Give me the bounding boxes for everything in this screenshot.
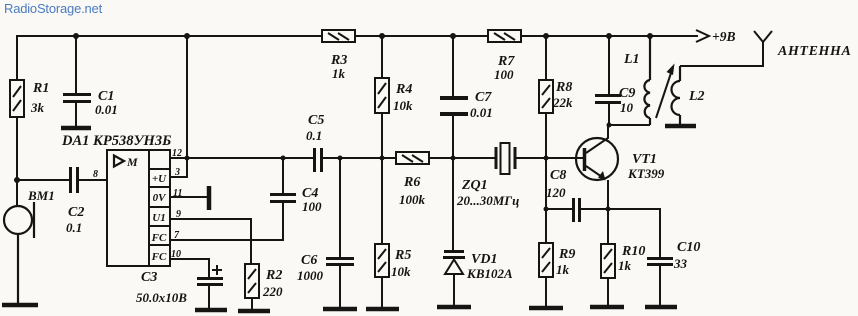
svg-text:RadioStorage.net: RadioStorage.net [4, 1, 103, 16]
node C7 top [450, 33, 456, 39]
svg-text:0.01: 0.01 [95, 102, 118, 117]
label C1 value [95, 89, 118, 117]
capacitor C4 [270, 158, 296, 202]
label C7 value [470, 90, 493, 120]
svg-text:0V: 0V [153, 192, 168, 204]
DA1 pin numbers [171, 148, 182, 260]
label R3 value [330, 53, 347, 81]
svg-text:C7: C7 [475, 90, 492, 105]
capacitor C6 [326, 158, 354, 307]
resistor R6 [396, 152, 495, 164]
ground under C10 [645, 305, 677, 310]
label R4 value [393, 82, 413, 113]
capacitor C1 [63, 36, 91, 126]
label C8 value [546, 168, 566, 200]
svg-text:VD1: VD1 [471, 252, 497, 267]
svg-text:C9: C9 [619, 86, 635, 101]
ground under R5 [366, 307, 399, 312]
svg-text:1000: 1000 [297, 268, 324, 283]
svg-text:R1: R1 [32, 81, 49, 96]
+9V arrow [696, 30, 709, 42]
label C9 value [619, 86, 635, 115]
svg-text:BM1: BM1 [27, 188, 55, 203]
node C1 top junction [73, 33, 79, 39]
svg-text:R9: R9 [558, 247, 575, 262]
svg-text:33: 33 [673, 256, 688, 271]
node emitter/C8 right [606, 207, 611, 212]
svg-text:1k: 1k [332, 66, 346, 81]
wire collector node to L1 [609, 124, 650, 126]
crystal ZQ1 [496, 143, 583, 174]
node collector/L1 [607, 123, 612, 128]
svg-text:C6: C6 [301, 253, 317, 268]
label VD1 type [466, 252, 513, 281]
svg-text:120: 120 [546, 185, 566, 200]
resistor R8 [539, 36, 553, 209]
DA1 cell labels [151, 173, 168, 263]
wire pin9 to R2 [170, 219, 251, 264]
svg-text:ZQ1: ZQ1 [461, 178, 488, 193]
wire pin3 to supply node [170, 158, 187, 177]
ground under L2 [665, 124, 696, 129]
svg-text:50.0x10В: 50.0x10В [136, 290, 187, 305]
svg-text:22k: 22k [552, 95, 573, 110]
svg-text:R8: R8 [555, 80, 572, 95]
wire pin11 stub [170, 196, 207, 198]
svg-text:1k: 1k [556, 262, 570, 277]
label R1 value [30, 81, 49, 115]
label ZQ1 value [456, 178, 519, 208]
ground under BM1 [2, 303, 38, 308]
svg-text:10k: 10k [393, 98, 413, 113]
svg-text:3k: 3k [30, 100, 45, 115]
tuning arrow L1/L2 [656, 64, 675, 119]
svg-text:+9В: +9В [712, 29, 735, 44]
varicap VD1 [443, 158, 465, 305]
svg-text:VT1: VT1 [632, 152, 657, 167]
DA1 amplifier mark [114, 155, 138, 169]
label R6 value [399, 175, 426, 207]
label C5 value [306, 113, 324, 143]
svg-text:100k: 100k [399, 192, 426, 207]
svg-text:L2: L2 [688, 89, 705, 104]
transistor VT1 [546, 125, 618, 209]
svg-text:L1: L1 [623, 52, 640, 67]
node C6 top [338, 156, 343, 161]
svg-text:R4: R4 [395, 82, 412, 97]
node R8 top [543, 33, 549, 39]
node R4 top [379, 33, 385, 39]
node C8 left [544, 207, 549, 212]
node mic/C2 branch [14, 177, 20, 183]
svg-text:R5: R5 [394, 248, 411, 263]
wire pin7 to C4 [170, 203, 283, 240]
node rail x187 [184, 33, 190, 39]
microphone BM1 [4, 202, 34, 303]
ground under VD1 [437, 305, 471, 310]
resistor R9 [539, 209, 553, 306]
capacitor C3 electrolytic [197, 265, 223, 308]
label C3 type [136, 270, 187, 305]
node C9 top [606, 33, 612, 39]
capacitor C9 [595, 36, 621, 125]
ground under C1 [61, 126, 91, 131]
resistor R2 [245, 264, 259, 309]
resistor R4 [375, 36, 389, 158]
resistor R1 [10, 80, 24, 117]
node supply x187 [185, 156, 190, 161]
wire supply line to C5 [187, 157, 313, 159]
svg-text:C8: C8 [550, 168, 566, 183]
svg-text:DA1 КР538УН3Б: DA1 КР538УН3Б [61, 133, 171, 149]
wire rail to supply node [186, 36, 188, 158]
svg-text:C2: C2 [68, 205, 84, 220]
label VT1 type [627, 152, 665, 181]
capacitor C2 [17, 167, 107, 193]
node C4 top [281, 156, 286, 161]
capacitor C5 [315, 148, 397, 172]
svg-text:1k: 1k [618, 258, 632, 273]
inductor L2 [672, 66, 681, 124]
ground under R9 [529, 306, 563, 311]
svg-text:C5: C5 [308, 113, 324, 128]
capacitor C10 [647, 259, 673, 306]
svg-text:100: 100 [302, 199, 322, 214]
svg-text:20...30МГц: 20...30МГц [456, 193, 519, 208]
svg-text:0.01: 0.01 [470, 105, 493, 120]
svg-text:FC: FC [151, 232, 167, 244]
svg-text:0.1: 0.1 [66, 220, 82, 235]
svg-text:U1: U1 [152, 212, 165, 224]
wire pin12 stub [170, 157, 187, 159]
node R4/R5 mid [380, 156, 385, 161]
wire pin10 to C3 [170, 259, 209, 277]
wire L2 to antenna [680, 42, 763, 66]
svg-text:АНТЕННА: АНТЕННА [777, 44, 851, 59]
antenna symbol [754, 31, 772, 42]
label R9 value [556, 247, 575, 277]
ground under C6 [323, 307, 357, 312]
label R2 value [262, 268, 283, 299]
node C7/VD1 mid [451, 156, 456, 161]
node L1 top [647, 33, 653, 39]
svg-text:10: 10 [620, 100, 634, 115]
wire left column [16, 36, 18, 80]
label R7 value [494, 54, 515, 82]
resistor R3 [322, 30, 355, 42]
svg-text:0.1: 0.1 [306, 128, 322, 143]
svg-text:10k: 10k [391, 264, 411, 279]
svg-text:100: 100 [494, 67, 514, 82]
svg-text:C10: C10 [677, 240, 700, 255]
wire emitter node to C10 [608, 209, 660, 257]
resistor R7 [488, 30, 521, 42]
svg-text:C3: C3 [141, 270, 157, 285]
ground under R2 [238, 309, 270, 314]
svg-text:R10: R10 [621, 244, 645, 259]
svg-text:М: М [126, 155, 138, 169]
svg-text:КТ399: КТ399 [627, 166, 665, 181]
ground bar pin11 [207, 186, 212, 210]
svg-text:8: 8 [93, 169, 98, 180]
node base [544, 156, 549, 161]
ground under R10 [590, 305, 624, 310]
inductor L1 [644, 36, 650, 125]
label C6 value [297, 253, 324, 283]
svg-text:R6: R6 [403, 175, 420, 190]
label C10 value [673, 240, 700, 271]
svg-text:FC: FC [151, 251, 167, 263]
svg-text:КВ102А: КВ102А [466, 266, 513, 281]
svg-text:+U: +U [152, 173, 167, 185]
wire +9V top rail [17, 35, 322, 37]
svg-text:220: 220 [262, 284, 283, 299]
label C2 value [66, 205, 84, 235]
capacitor C7 [440, 36, 468, 158]
resistor R5 [375, 158, 389, 307]
ground under C3 [195, 308, 227, 313]
op-amp U1 DA1 body [107, 150, 170, 266]
label R5 value [391, 248, 411, 279]
capacitor C8 [546, 198, 608, 222]
svg-text:R2: R2 [265, 268, 282, 283]
label C4 value [302, 186, 322, 214]
label R8 value [552, 80, 573, 110]
label R10 value [618, 244, 645, 273]
resistor R10 [601, 209, 615, 305]
